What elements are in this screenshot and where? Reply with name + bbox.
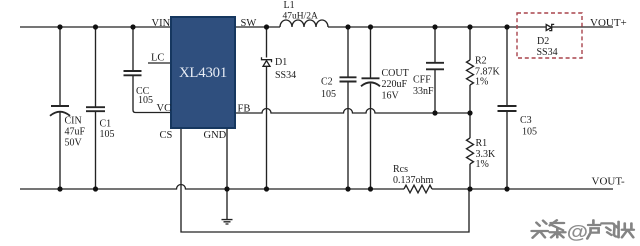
svg-text:CS: CS	[160, 130, 173, 141]
svg-text:VOUT+: VOUT+	[590, 17, 627, 29]
svg-text:LC: LC	[151, 53, 164, 64]
svg-text:XL4301: XL4301	[179, 65, 227, 81]
svg-text:D2: D2	[537, 36, 549, 47]
svg-text:Rcs: Rcs	[393, 164, 408, 175]
svg-text:C2: C2	[321, 77, 333, 88]
svg-text:VC: VC	[157, 103, 172, 114]
svg-text:L1: L1	[284, 0, 295, 11]
svg-text:105: 105	[522, 127, 537, 138]
svg-text:VIN: VIN	[152, 18, 171, 29]
svg-text:105: 105	[321, 89, 336, 100]
svg-text:D1: D1	[275, 57, 287, 68]
svg-text:@: @	[567, 223, 588, 243]
svg-text:R2: R2	[475, 56, 487, 67]
svg-text:0.137ohm: 0.137ohm	[393, 175, 434, 186]
svg-text:SS34: SS34	[537, 47, 558, 58]
svg-text:1%: 1%	[476, 159, 489, 170]
svg-text:CFF: CFF	[413, 75, 431, 86]
svg-text:C3: C3	[520, 115, 532, 126]
svg-text:1%: 1%	[475, 77, 488, 88]
svg-text:105: 105	[100, 129, 115, 140]
svg-text:VOUT-: VOUT-	[592, 176, 626, 188]
svg-text:GND: GND	[204, 130, 227, 141]
svg-text:R1: R1	[476, 138, 488, 149]
svg-text:33nF: 33nF	[413, 86, 434, 97]
svg-text:CIN: CIN	[65, 116, 82, 127]
svg-text:47uH/2A: 47uH/2A	[283, 12, 319, 22]
svg-text:220uF: 220uF	[382, 79, 408, 90]
svg-text:COUT: COUT	[382, 68, 409, 79]
svg-text:105: 105	[138, 95, 153, 106]
svg-text:FB: FB	[238, 104, 251, 115]
svg-text:SW: SW	[241, 18, 257, 29]
svg-text:50V: 50V	[65, 138, 83, 149]
svg-text:47uF: 47uF	[65, 127, 86, 138]
svg-text:16V: 16V	[382, 91, 400, 102]
svg-text:C1: C1	[100, 119, 112, 130]
svg-text:SS34: SS34	[275, 70, 296, 81]
